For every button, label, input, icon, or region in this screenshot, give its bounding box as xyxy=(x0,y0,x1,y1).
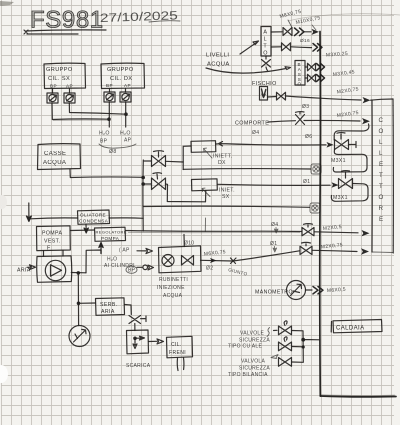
plus joint xyxy=(231,258,237,264)
svg-text:Ø1: Ø1 xyxy=(303,179,310,185)
loop below lower valve xyxy=(331,184,368,202)
chevrons xyxy=(295,28,305,36)
wire v1 out xyxy=(166,160,184,163)
svg-text:M3X1: M3X1 xyxy=(333,195,348,201)
svg-text:ARIA: ARIA xyxy=(17,268,31,274)
svg-text:M3X1: M3X1 xyxy=(331,158,346,164)
iniet sx box xyxy=(192,179,218,191)
svg-text:POMPA: POMPA xyxy=(42,231,62,237)
svg-text:SERB.: SERB. xyxy=(100,302,118,308)
svg-text:AP: AP xyxy=(66,84,73,89)
svg-text:Ø1: Ø1 xyxy=(270,241,277,247)
rubinetti box xyxy=(159,246,202,273)
wire sq3 down H2O BP xyxy=(108,102,110,127)
wire riser to iniett dx xyxy=(183,146,191,170)
scarica box xyxy=(127,330,149,354)
wire pump out xyxy=(71,272,86,274)
svg-text:TIPO CU ALE: TIPO CU ALE xyxy=(228,344,263,350)
iniett dx pointer xyxy=(204,148,213,158)
svg-text:AP: AP xyxy=(124,83,131,88)
arrow into collettore top xyxy=(363,97,371,103)
chevrons into bus xyxy=(313,44,322,52)
drain arrow to pompa xyxy=(26,203,31,222)
svg-text:( AP: ( AP xyxy=(119,248,130,254)
caldaia box xyxy=(331,320,382,333)
regolatore pompa box xyxy=(95,227,126,241)
svg-text:Ø4: Ø4 xyxy=(252,130,259,136)
svg-text:H₂O: H₂O xyxy=(107,257,117,263)
wire comporte xyxy=(268,120,360,122)
svg-text:BP: BP xyxy=(100,139,108,145)
wire alto lo xyxy=(271,46,312,49)
gruppo cil sx box xyxy=(44,63,86,88)
svg-text:ACQUA: ACQUA xyxy=(163,293,183,299)
pump body box xyxy=(37,256,72,282)
junction safety xyxy=(301,338,305,342)
check valve sq3 xyxy=(104,92,115,102)
arrow on rubinetti out xyxy=(210,258,217,263)
valve basso hi xyxy=(308,63,316,71)
wire y119 ghost xyxy=(53,119,108,121)
svg-text:A: A xyxy=(263,30,267,36)
arrow into valve M3b xyxy=(332,182,339,188)
aria arrow xyxy=(27,265,36,270)
pin stub xyxy=(53,89,70,94)
wire pompa to regolatore xyxy=(70,229,94,232)
valve y231 xyxy=(302,224,314,236)
arrow y231 into collettore xyxy=(362,230,370,236)
rubinetti feed riser xyxy=(183,235,185,247)
svg-text:BP: BP xyxy=(106,83,113,88)
pompa vest box xyxy=(37,226,71,251)
svg-text:Ø8: Ø8 xyxy=(109,149,117,155)
date strike xyxy=(149,21,180,22)
wire manometro to bus xyxy=(306,289,313,291)
svg-text:T: T xyxy=(379,183,383,190)
svg-text:L: L xyxy=(379,150,383,157)
svg-text:Ø6: Ø6 xyxy=(305,134,312,140)
svg-text:SCARICA: SCARICA xyxy=(126,363,151,369)
cil freni pipes xyxy=(177,358,184,371)
wire v2 out loop xyxy=(166,184,206,202)
comporte valve xyxy=(296,112,305,125)
junction BP xyxy=(107,117,111,121)
title underline xyxy=(24,30,106,34)
pin stub xyxy=(110,89,126,93)
serb aria box xyxy=(96,298,125,316)
wire stub below xyxy=(204,218,206,232)
leader lines xyxy=(288,20,316,30)
svg-text:VALVOLE: VALVOLE xyxy=(240,331,265,337)
binder hole upper xyxy=(0,195,7,209)
svg-text:CASSE: CASSE xyxy=(44,151,66,157)
iniet sx pointer xyxy=(202,188,210,196)
wire alto hi xyxy=(271,31,311,33)
check valve sq4 xyxy=(120,92,131,102)
collettore right wall xyxy=(392,99,394,253)
junction valve2 xyxy=(141,182,145,186)
wire serb feed xyxy=(79,302,96,304)
svg-text:INIETT.: INIETT. xyxy=(213,154,232,160)
safety valve A xyxy=(279,321,292,335)
valve M3 upper xyxy=(335,133,349,150)
chevrons xyxy=(317,75,325,82)
collettore bottom xyxy=(372,251,393,254)
svg-text:LIVELLI: LIVELLI xyxy=(206,53,229,59)
svg-text:SX: SX xyxy=(222,194,230,200)
loop below valve M3 xyxy=(333,150,367,173)
svg-text:GRUPPO: GRUPPO xyxy=(107,67,134,73)
iniett dx box xyxy=(191,141,216,153)
svg-text:E: E xyxy=(379,216,383,223)
valve alto lo xyxy=(282,43,291,51)
valve V1 xyxy=(144,151,166,167)
rubinetti cock 2 xyxy=(182,256,194,266)
svg-text:FRENI: FRENI xyxy=(169,350,186,356)
cil freni box xyxy=(167,336,193,358)
svg-text:VEST.: VEST. xyxy=(44,239,60,245)
svg-text:Ø3: Ø3 xyxy=(302,104,309,110)
svg-text:H₂O: H₂O xyxy=(99,131,110,137)
wire y218 right of oliatore xyxy=(109,217,143,219)
chevrons into bus xyxy=(313,287,323,294)
curve acqua to basso xyxy=(206,67,291,73)
junction serb xyxy=(77,302,81,306)
svg-text:CONDENSA: CONDENSA xyxy=(79,219,109,224)
arrow into collettore mid xyxy=(362,118,370,124)
svg-text:COMPORTE: COMPORTE xyxy=(235,121,269,127)
manometro gauge xyxy=(287,281,306,300)
wire whistle out xyxy=(268,96,362,100)
svg-text:INIET.: INIET. xyxy=(219,188,235,194)
pointer to alto xyxy=(240,41,259,54)
svg-text:POMPA: POMPA xyxy=(101,236,120,241)
node column wire xyxy=(142,160,144,231)
svg-text:CIL. SX: CIL. SX xyxy=(48,76,70,82)
scarica out xyxy=(149,339,164,344)
wire serb out xyxy=(125,305,132,315)
svg-text:VALVOLA: VALVOLA xyxy=(241,359,266,365)
tick before valve A xyxy=(274,329,278,331)
svg-text:ACQUA: ACQUA xyxy=(43,160,66,166)
wire down to serb/gauge xyxy=(77,273,79,326)
arrow into bus top xyxy=(312,29,320,35)
valve M3 right stub xyxy=(349,142,356,148)
gruppo cil dx box xyxy=(101,63,145,88)
check valve sq2 xyxy=(64,93,75,103)
svg-text:O: O xyxy=(379,194,384,201)
faint top pencil line xyxy=(288,14,400,21)
wire casse to node xyxy=(70,170,143,178)
svg-text:OLIATORE: OLIATORE xyxy=(80,213,106,218)
svg-text:H₂O: H₂O xyxy=(120,131,131,137)
svg-text:GRUPPO: GRUPPO xyxy=(46,67,73,73)
scarica internals xyxy=(133,337,137,341)
basso box xyxy=(295,61,305,86)
wire y231 regolatore to collettore xyxy=(126,231,359,233)
pump circle xyxy=(45,260,65,280)
wire iniett dx out y144 xyxy=(216,142,326,146)
svg-text:SICUREZZA: SICUREZZA xyxy=(239,366,270,372)
casse acqua box xyxy=(38,144,81,170)
svg-text:T: T xyxy=(263,44,267,50)
collettore left wall xyxy=(371,100,373,252)
oliatore drip arrow xyxy=(84,225,88,234)
rubinetti cock 1 xyxy=(162,255,174,267)
svg-text:C: C xyxy=(379,117,384,124)
binder hole lower xyxy=(0,365,8,383)
wire iniet sx out y185 xyxy=(217,184,330,185)
svg-text:F: F xyxy=(47,246,51,252)
wire sq4 down H2O AP xyxy=(125,102,127,127)
svg-text:CALDAIA: CALDAIA xyxy=(336,326,364,332)
collettore letters xyxy=(379,117,384,223)
wire y206 to union B xyxy=(143,206,309,207)
input ap xyxy=(137,248,153,253)
arrow y250 into collettore xyxy=(361,248,369,254)
svg-text:O: O xyxy=(263,51,268,57)
feedback arrow into regolatore xyxy=(99,243,103,254)
union joint box A xyxy=(311,164,321,174)
wire valve down xyxy=(134,324,136,331)
svg-text:REGOLATORE: REGOLATORE xyxy=(96,230,127,235)
valve V2 xyxy=(144,173,166,190)
wire y218 left of oliatore xyxy=(31,217,78,220)
svg-text:RUBINETTI: RUBINETTI xyxy=(159,277,188,283)
svg-text:T: T xyxy=(379,172,383,179)
corner smudge xyxy=(0,1,14,6)
union joint box B xyxy=(310,203,320,213)
safety collector wire xyxy=(292,331,320,363)
wire basso hi xyxy=(305,66,308,68)
brace valves xyxy=(267,328,270,337)
main bus vertical xyxy=(319,32,322,397)
safety valve B xyxy=(279,337,292,351)
wire basso lo xyxy=(305,77,308,79)
svg-text:DX: DX xyxy=(218,160,226,166)
svg-text:O: O xyxy=(379,128,384,135)
drain valve under alto xyxy=(262,56,271,71)
valve alto hi xyxy=(283,28,292,36)
brace under labels xyxy=(99,144,136,148)
svg-text:Ø4: Ø4 xyxy=(271,222,278,228)
valve whistle xyxy=(277,92,286,100)
safety valve C xyxy=(279,358,292,367)
loop from mid arrow to valve M3 xyxy=(334,124,369,140)
svg-text:AP: AP xyxy=(124,138,132,144)
valve basso lo xyxy=(308,74,316,82)
valve M3 lower xyxy=(339,171,353,189)
arrow into valve C xyxy=(271,355,278,359)
svg-text:L: L xyxy=(264,37,267,43)
collettore top xyxy=(371,99,394,100)
wire sq2 to node AP xyxy=(69,103,126,114)
wire y250 rubinetti to collettore xyxy=(201,250,358,261)
bus bottom run xyxy=(320,395,396,398)
alto box xyxy=(261,27,271,57)
wire y231 ghost xyxy=(128,231,300,233)
svg-text:Ø2: Ø2 xyxy=(206,266,213,272)
svg-text:27/10/2025: 27/10/2025 xyxy=(100,8,179,25)
junction AP xyxy=(124,112,128,116)
svg-text:E: E xyxy=(379,161,383,168)
svg-text:CIL.: CIL. xyxy=(171,342,182,348)
svg-text:ACQUA: ACQUA xyxy=(207,62,230,68)
svg-text:L: L xyxy=(379,139,383,146)
wire y396 ghost xyxy=(321,394,395,397)
svg-text:BP: BP xyxy=(50,84,57,89)
wire y169 to collettore xyxy=(183,168,310,171)
arrow into valve M3 xyxy=(327,142,334,148)
oliatore box xyxy=(78,210,110,224)
svg-text:TIPO BILANCIA: TIPO BILANCIA xyxy=(228,372,268,378)
svg-text:INIEZIONE: INIEZIONE xyxy=(157,285,185,291)
svg-text:ARIA: ARIA xyxy=(101,309,115,315)
wire sq1 to node BP xyxy=(52,103,109,120)
scarico valve xyxy=(129,316,146,324)
wire riser to regolatore xyxy=(86,250,101,273)
svg-text:Ø16: Ø16 xyxy=(300,38,310,44)
pressure gauge xyxy=(69,326,90,347)
svg-text:O: O xyxy=(298,82,302,87)
check valve sq1 xyxy=(47,93,58,103)
junction pump out xyxy=(77,271,81,275)
whistle xyxy=(260,87,268,101)
svg-text:R: R xyxy=(379,205,384,212)
chevrons xyxy=(317,64,325,71)
input bp xyxy=(137,265,154,270)
valve y250 xyxy=(300,242,312,254)
pump channel stubs xyxy=(44,250,64,256)
svg-text:CIL. DX: CIL. DX xyxy=(110,76,132,82)
junction casse xyxy=(141,176,145,180)
